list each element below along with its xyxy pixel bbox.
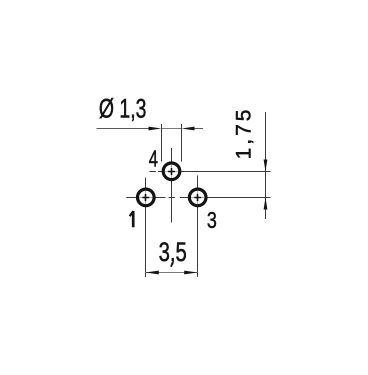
label dimension text "3,5" (159, 237, 187, 268)
svg-text:4: 4 (149, 147, 158, 172)
interior crosshair pin 1 (139, 191, 152, 204)
dimension line 3,5 (146, 272, 198, 274)
svg-text:Ø 1,3: Ø 1,3 (99, 93, 147, 123)
pin circle 3 (189, 189, 206, 206)
center cross pin 3 (194, 194, 201, 201)
pin circle 4 (163, 163, 180, 180)
center cross pin 1 (142, 194, 149, 201)
dimension line Ø1,3 middle segment (162, 128, 182, 130)
center cross pin 4 (168, 168, 175, 175)
extension line left of Ø1,3 (161, 124, 163, 162)
dimension line Ø1,3 left segment (97, 128, 150, 130)
svg-text:3: 3 (207, 208, 217, 234)
interior crosshair pin 3 (191, 191, 204, 204)
arrowhead 1,75 upper (points down) (264, 160, 268, 172)
label pin 3 (207, 208, 217, 234)
centerline vertical pin 4 (171, 148, 173, 223)
centerline horizontal pin row segment through pin 3 (180, 197, 271, 199)
interior crosshair pin 4 (165, 165, 178, 178)
arrowhead Ø1,3 right (points left) (182, 127, 195, 131)
svg-text:1,75: 1,75 (232, 107, 255, 160)
label dimension text "Ø 1,3" (99, 93, 147, 123)
arrowhead 3,5 right (points right) (184, 271, 197, 275)
centerline vertical pin 3 / extension for 3,5 (197, 176, 199, 278)
arrowhead 3,5 left (points left) (146, 271, 159, 275)
label pin 1 (130, 211, 134, 227)
centerline horizontal pin 4 long segment (158, 171, 271, 173)
centerline vertical pin 1 / extension for 3,5 (145, 178, 147, 278)
dimension line Ø1,3 right tail (195, 128, 204, 130)
comma tail of "3,5" (171, 263, 173, 267)
arrowhead 1,75 lower (points up) (264, 198, 268, 210)
dimension line 1,75 vertical (265, 112, 267, 219)
centerline horizontal pin row segment through pin 1 (127, 197, 166, 199)
extension line right of Ø1,3 (181, 124, 183, 162)
centerline horizontal pin 4 short dash (150, 171, 157, 173)
label pin 4 (149, 147, 158, 172)
arrowhead Ø1,3 left (points right) (149, 127, 162, 131)
centerline horizontal pin row short dash (169, 197, 176, 199)
pin circle 1 (138, 189, 155, 206)
